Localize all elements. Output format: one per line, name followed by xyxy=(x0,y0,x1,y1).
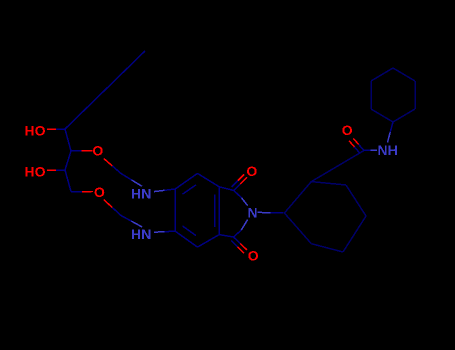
imide bond Ctop to N xyxy=(234,191,242,198)
svg-text:NH: NH xyxy=(378,142,398,158)
wire backbone v2-v3 xyxy=(65,151,71,170)
wire HN1 to ring xyxy=(154,190,165,191)
benzene inner stroke bottom-left xyxy=(183,226,197,236)
wire v2 to O1 xyxy=(71,150,82,152)
svg-text:O: O xyxy=(342,122,353,138)
wire backbone v3-v4 xyxy=(65,170,71,192)
benzene inner stroke right xyxy=(214,195,216,228)
phenyl ring top right xyxy=(371,109,393,122)
C=O top double bond xyxy=(234,184,241,191)
imide ring bond RT to Ctop xyxy=(219,187,234,191)
svg-text:O: O xyxy=(92,143,103,159)
svg-text:O: O xyxy=(94,184,105,200)
svg-text:HN: HN xyxy=(131,226,151,242)
wire O1 to CH2a xyxy=(104,159,113,167)
wire HN2 to ring xyxy=(154,231,165,234)
wire O2 to CH2b xyxy=(104,200,113,208)
wire CH2a to N of HN1 xyxy=(121,174,132,180)
wire arm C2 to amide C xyxy=(311,151,364,182)
wire imide N to C1 xyxy=(258,211,271,213)
wire NH to phenyl xyxy=(388,132,391,142)
svg-text:O: O xyxy=(248,247,259,263)
svg-text:HO: HO xyxy=(25,122,46,138)
wire C-C backbone v1-v2 xyxy=(65,129,71,151)
wire chain up-right from C2' xyxy=(65,51,145,129)
imide ring bond RB to Cbot xyxy=(219,235,233,237)
wire HO2 to C xyxy=(47,169,56,171)
imide bond Cbot to N xyxy=(234,230,242,237)
wire amide C to NH xyxy=(364,149,371,151)
wire CH2b to N of HN2 xyxy=(121,216,132,222)
C=O bottom double bond xyxy=(234,237,241,244)
benzene ring xyxy=(175,173,197,189)
benzene inner stroke top-left xyxy=(183,185,197,194)
svg-text:HO: HO xyxy=(25,163,46,179)
svg-text:O: O xyxy=(246,163,257,179)
svg-text:N: N xyxy=(248,204,258,220)
svg-text:HN: HN xyxy=(131,185,151,201)
cyclohexane ring xyxy=(284,182,311,213)
amide C=O double bond xyxy=(359,144,364,150)
wire HO1 to C xyxy=(47,128,56,130)
wire v4 to O2 xyxy=(71,191,82,193)
